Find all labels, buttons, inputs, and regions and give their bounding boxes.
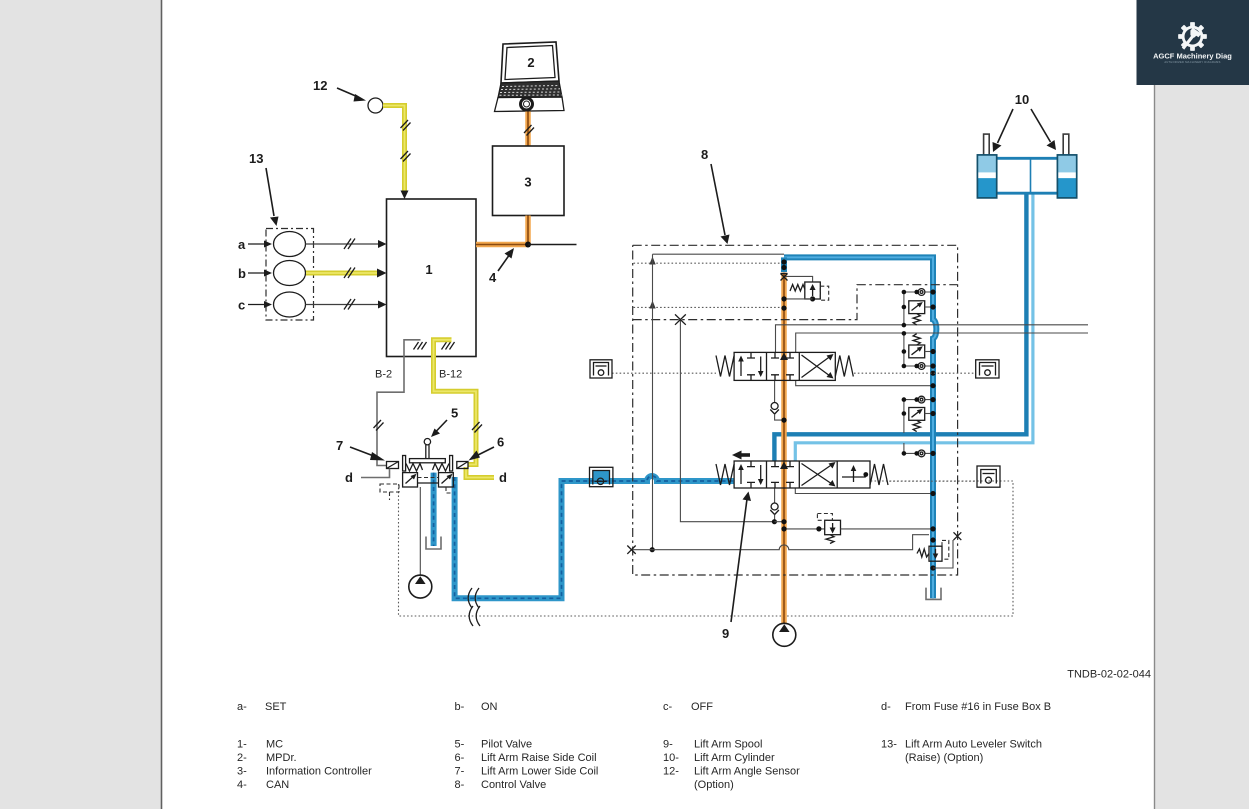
wire a-to-1 [306,243,380,245]
section: pilot valve [336,406,1013,627]
svg-text:a: a [238,237,246,252]
right page border [1154,85,1156,809]
svg-text:10: 10 [1015,92,1029,107]
main pump [773,623,796,646]
svg-text:Lift Arm Raise Side Coil: Lift Arm Raise Side Coil [481,752,597,764]
svg-text:c-: c- [663,701,673,713]
inner dash-dot step [633,285,958,320]
section: electrical top-left [238,42,577,478]
cylinder 10 right [1057,134,1076,198]
wire B-12 (yellow) [434,340,477,465]
lower body right [439,473,454,487]
svg-text:From Fuse #16 in Fuse Box B: From Fuse #16 in Fuse Box B [905,701,1051,713]
relief cluster C2 [902,331,933,369]
lift arm spool 9 [716,451,888,489]
rail x678 with closed-port X [680,320,774,522]
rail top line [653,253,785,255]
svg-text:c: c [238,298,245,313]
pilot pump [409,575,432,598]
dashed drain box [380,484,399,492]
switch a [274,232,306,257]
svg-text:3: 3 [524,175,531,190]
mid relief RV2 [784,528,824,530]
svg-text:1-: 1- [237,739,247,751]
bottom long rail with bump over orange [632,535,930,550]
svg-text:a-: a- [237,701,247,713]
pilot cap right lower [977,466,1000,487]
blue pilot supply loop [455,476,734,598]
switch c [274,292,306,317]
svg-text:Pilot Valve: Pilot Valve [481,739,532,751]
relief cluster C3 [902,396,933,433]
svg-text:d-: d- [881,701,891,713]
svg-text:MPDr.: MPDr. [266,752,297,764]
closed port star left [627,546,635,554]
white page [162,0,1154,809]
check symbol on gallery top [781,274,788,281]
actuation arrow [740,453,750,457]
load check upper [774,380,776,402]
return from upper valve [796,380,933,385]
dotted pilot lines top-left [634,262,785,264]
work line B [796,333,1088,353]
svg-text:OFF: OFF [691,701,713,713]
lever knob [424,439,430,445]
svg-text:Lift Arm Auto Leveler Switch: Lift Arm Auto Leveler Switch [905,739,1042,751]
pilot valve 5 body [380,439,453,501]
svg-text:2-: 2- [237,752,247,764]
svg-text:CAN: CAN [266,779,289,791]
node 4 junction [525,242,531,248]
svg-text:9-: 9- [663,739,673,751]
main blue gallery [784,257,936,598]
main relief valve [784,276,813,282]
pump supply line [419,487,421,575]
boundary 8 dash-dot [633,245,958,575]
wire c-to-1 [306,304,380,306]
svg-text:7-: 7- [455,766,465,778]
top plate [410,459,446,463]
pilot cap right upper [976,360,999,378]
blue stub above check [781,257,787,272]
svg-text:ON: ON [481,701,498,713]
blue pilot line to tank [431,473,437,546]
wire laptop-to-3 (orange) [525,112,531,147]
laptop 2 [495,42,565,112]
pipe cylinder rod side (light blue) [795,193,1033,461]
svg-text:12-: 12- [663,766,679,778]
wire b-to-1 (yellow, ON) [306,271,377,276]
coil 7 (lower side) [387,462,399,469]
load check lower [774,488,776,503]
pilot cap left upper [590,360,612,378]
svg-text:Lift Arm Angle Sensor: Lift Arm Angle Sensor [694,766,800,778]
junction dots gallery [781,259,786,264]
cylinder frame pipes [997,157,1058,160]
wire stub right of node 4 [528,244,577,246]
svg-text:13: 13 [249,151,263,166]
pilot dashed lift spool [889,480,976,482]
svg-text:(Raise) (Option): (Raise) (Option) [905,752,983,764]
box 1 (MC) [387,199,477,357]
switch group 13 dashed box [266,229,314,321]
lower body left [403,473,418,487]
switch b [274,261,306,286]
svg-text:d: d [499,470,507,485]
pipe break marks on blue [468,588,479,608]
right spring [433,464,450,472]
outer dotted enclosure [399,481,1014,616]
logo box [1137,0,1249,85]
wire 1-to-node4 (orange, CAN) [476,242,528,248]
pilot dashed upper valve [612,372,716,374]
section: legend [237,669,1151,792]
upper spool valve [716,352,853,380]
svg-text:5: 5 [451,406,458,421]
rail left vertical [652,254,654,550]
tank right [926,588,941,600]
relief cluster C1 [902,289,933,328]
section: control valve block [590,147,1088,646]
svg-text:TNDB-02-02-044: TNDB-02-02-044 [1067,669,1151,681]
svg-text:Information Controller: Information Controller [266,766,372,778]
svg-text:Control Valve: Control Valve [481,779,546,791]
svg-text:B-2: B-2 [375,369,392,381]
svg-text:d: d [345,470,353,485]
svg-text:6: 6 [497,435,504,450]
box 3 (Information Controller) [493,146,565,216]
svg-text:3-: 3- [237,766,247,778]
svg-text:SET: SET [265,701,287,713]
svg-text:(Option): (Option) [694,779,734,791]
section: cylinders [977,92,1076,198]
svg-text:10-: 10- [663,752,679,764]
svg-text:8-: 8- [455,779,465,791]
coil 6 (raise side) [457,462,468,469]
svg-text:13-: 13- [881,739,897,751]
return from lift spool [795,488,933,494]
svg-text:9: 9 [722,626,729,641]
svg-text:4-: 4- [237,779,247,791]
wire 3-to-node4 (orange) [525,216,531,245]
svg-text:7: 7 [336,438,343,453]
svg-text:Lift Arm Spool: Lift Arm Spool [694,739,762,751]
svg-text:B-12: B-12 [439,369,462,381]
svg-text:6-: 6- [455,752,465,764]
wire 12-to-1 (yellow) [383,106,405,192]
left end bar [403,456,406,472]
dashed link between bodies [418,477,439,479]
tank under pilot valve [426,537,441,550]
svg-text:2: 2 [527,55,534,70]
svg-text:b-: b- [455,701,465,713]
check C4 [902,443,933,457]
ground hatch B-12 [442,342,455,350]
svg-text:1: 1 [425,262,432,277]
sensor 12 circle [368,98,383,113]
check valve box on pilot line [590,467,613,486]
left spring [406,464,423,472]
cylinder 10 left [977,134,996,198]
svg-text:AUTHORIZED MACHINERY DIAGRAMS: AUTHORIZED MACHINERY DIAGRAMS [1164,60,1220,64]
hammer [1182,28,1201,50]
pipe break marks on dotted line [469,606,480,626]
gear icon [1178,22,1207,51]
pipe cylinder head side (dark blue) [774,193,1026,461]
counterbalance valve bottom right [917,532,961,568]
svg-text:b: b [238,266,246,281]
right end bar [450,456,453,472]
valve body underlays [734,352,835,380]
svg-text:5-: 5- [455,739,465,751]
svg-text:12: 12 [313,78,327,93]
junction dots on gallery blue [930,289,935,570]
orange pressure line [781,273,787,624]
svg-text:8: 8 [701,147,708,162]
left page border [161,0,163,809]
svg-text:Lift Arm Cylinder: Lift Arm Cylinder [694,752,775,764]
svg-text:AGCF Machinery Diag: AGCF Machinery Diag [1153,52,1232,61]
svg-text:Lift Arm Lower Side Coil: Lift Arm Lower Side Coil [481,766,598,778]
work line A [776,325,1089,353]
svg-text:4: 4 [489,270,497,285]
wire B-2 (gray) [377,340,421,466]
ground hatch B-2 [414,342,427,350]
svg-text:MC: MC [266,739,283,751]
